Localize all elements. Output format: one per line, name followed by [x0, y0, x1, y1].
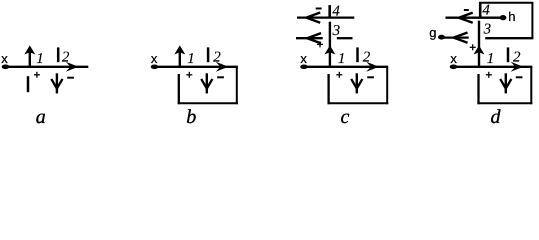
- svg-text:4: 4: [332, 4, 340, 20]
- loop right edge (fig b): [236, 67, 238, 104]
- svg-text:x: x: [151, 51, 158, 66]
- current arrow 1 (up) fig a: [24, 45, 35, 66]
- wire: element 4 branch (row 1) fig c: [297, 16, 354, 18]
- svg-text:2: 2: [513, 50, 521, 66]
- current arrowhead (left) element 4 fig d: [459, 13, 473, 23]
- svg-text:x: x: [450, 51, 457, 66]
- minus sign (fig d): [516, 76, 523, 78]
- loop bottom edge (fig c): [328, 102, 389, 104]
- svg-text:g: g: [429, 25, 436, 40]
- svg-text:2: 2: [62, 50, 70, 66]
- svg-text:x: x: [1, 51, 8, 66]
- plus sign (fig c): [336, 72, 342, 78]
- loop left edge / voltage bar (fig d): [477, 74, 479, 104]
- vertical connector wire with current arrow 1 (fig d): [474, 21, 485, 66]
- voltage bar 2 (fig c): [356, 47, 359, 62]
- wire: element 4 branch (row 1) fig d: [446, 17, 504, 19]
- voltage bar 4 (fig d): [479, 3, 482, 17]
- current arrow v (down) fig a: [51, 73, 62, 93]
- current arrowhead (left) element 4 fig c: [306, 13, 320, 23]
- svg-text:3: 3: [483, 22, 492, 38]
- svg-text:b: b: [186, 106, 196, 127]
- voltage bar below wire (fig a): [27, 76, 30, 92]
- current arrow v (down) fig d: [500, 73, 511, 93]
- svg-text:d: d: [491, 106, 502, 127]
- svg-text:3: 3: [332, 23, 341, 39]
- branch current arrowhead (right) fig a: [66, 62, 79, 72]
- node x (fig d): [450, 51, 458, 69]
- plus sign (fig b): [186, 72, 192, 78]
- vertical connector wire with current arrow 1 (fig c): [324, 22, 335, 66]
- voltage bar 2 (fig b): [207, 47, 210, 62]
- wire: main branch fig b: [155, 66, 238, 68]
- branch current arrowhead (right) fig b: [216, 62, 229, 72]
- voltage bar 4 (fig c): [328, 5, 331, 16]
- wire: main branch fig c: [304, 66, 388, 68]
- svg-text:2: 2: [363, 50, 371, 66]
- svg-text:a: a: [36, 106, 46, 127]
- loop left edge / voltage bar (fig c): [327, 74, 329, 104]
- svg-text:2: 2: [213, 50, 221, 66]
- svg-text:1: 1: [338, 51, 346, 67]
- node x (fig b): [151, 51, 159, 69]
- current arrow v (down) fig b: [201, 73, 212, 93]
- plus sign element 3 (fig d): [470, 44, 476, 50]
- minus sign element 4 (fig c): [316, 8, 322, 10]
- current arrowhead (left) element 3 fig d: [454, 33, 468, 43]
- svg-text:1: 1: [487, 51, 495, 67]
- wire: box top edge (fig d): [479, 2, 533, 4]
- node g (fig d): [429, 25, 445, 40]
- svg-text:1: 1: [36, 51, 44, 67]
- wire: element 3 branch (row 2) fig d: [442, 36, 469, 38]
- current arrowhead (left) element 3 fig c: [307, 33, 321, 43]
- voltage bar 2 (fig a): [57, 47, 60, 62]
- svg-text:h: h: [508, 9, 515, 24]
- svg-text:1: 1: [187, 51, 195, 67]
- plus sign element 3 (fig c): [317, 41, 323, 47]
- minus sign (fig a): [67, 77, 74, 79]
- minus sign (fig c): [367, 76, 374, 78]
- wire: row 2 right stub fig d: [485, 37, 533, 39]
- branch current arrowhead (right) fig c: [366, 62, 379, 72]
- current arrow v (down) fig c: [351, 73, 362, 93]
- minus sign element 4 (fig d): [464, 9, 469, 11]
- loop bottom edge (fig d): [477, 102, 532, 104]
- node x (fig c): [300, 51, 308, 69]
- wire: main branch fig a: [6, 66, 89, 68]
- wire: row 2 right stub fig c: [337, 37, 353, 39]
- plus sign (fig d): [486, 72, 492, 78]
- svg-text:c: c: [341, 106, 350, 127]
- plus sign (fig a): [34, 72, 40, 78]
- branch current arrowhead (right) fig d: [511, 62, 524, 72]
- loop bottom edge (fig b): [178, 102, 238, 104]
- voltage bar 2 (fig d): [507, 47, 510, 62]
- node x (fig a): [1, 51, 9, 69]
- loop right edge (fig c): [386, 67, 388, 104]
- wire: box right edge (fig d): [531, 3, 533, 39]
- node h (fig d): [500, 9, 516, 24]
- loop left edge / voltage bar (fig b): [178, 74, 180, 104]
- wire: main branch fig d: [454, 66, 533, 68]
- svg-text:4: 4: [482, 2, 490, 18]
- wire: element 3 branch (row 2) fig c: [296, 37, 323, 39]
- current arrow 1 (up) fig b: [174, 45, 185, 66]
- svg-text:x: x: [300, 51, 307, 66]
- minus sign (fig b): [217, 76, 224, 78]
- loop right edge (fig d): [530, 67, 532, 104]
